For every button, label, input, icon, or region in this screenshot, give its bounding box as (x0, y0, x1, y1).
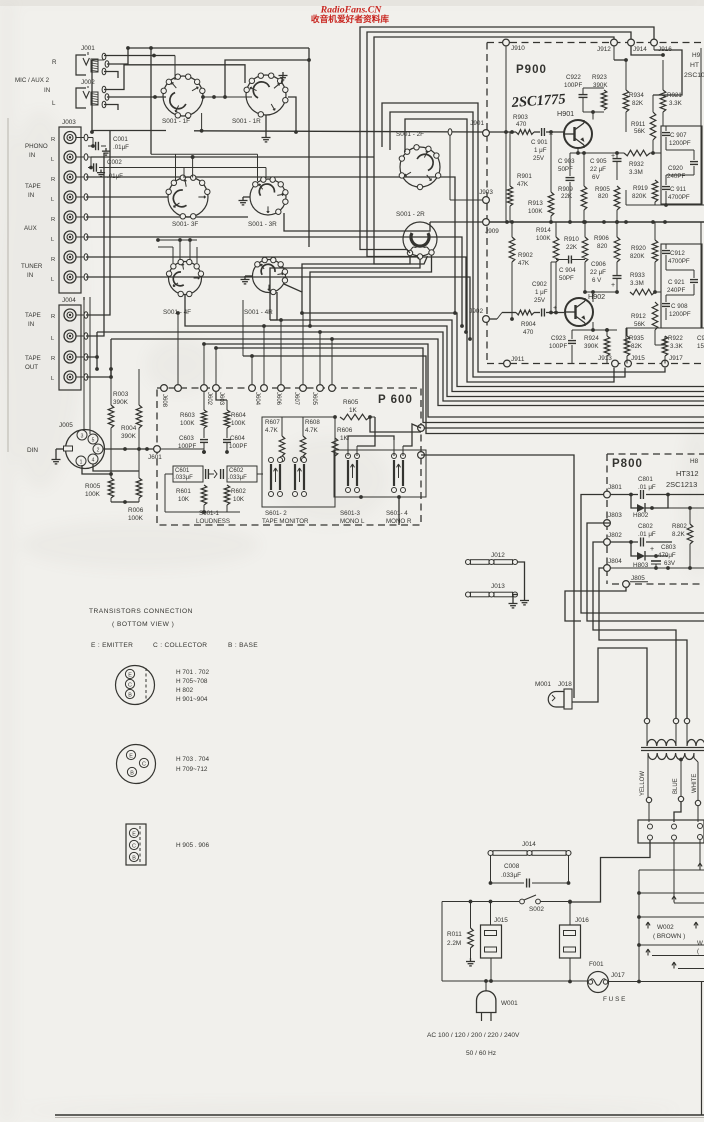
svg-text:DIN: DIN (27, 447, 38, 454)
resistor R603 100K (180, 392, 207, 438)
svg-text:R904: R904 (521, 321, 536, 328)
wire bundle risers P600 (176, 300, 334, 384)
wire J001 contacts (104, 46, 309, 80)
ground J005 (52, 449, 64, 464)
svg-text:4.7K: 4.7K (305, 427, 319, 434)
rotary switch S001-2R (396, 211, 437, 259)
svg-text:OUT: OUT (25, 364, 38, 371)
svg-text:R: R (51, 177, 55, 183)
svg-text:22 μF: 22 μF (590, 269, 606, 276)
transformer primary coils (647, 724, 704, 746)
svg-text:1200PF: 1200PF (669, 140, 691, 147)
wire TAPE IN L run (86, 196, 168, 198)
wire J804 loop (599, 568, 687, 721)
svg-text:R006: R006 (128, 507, 144, 514)
svg-text:C 905: C 905 (590, 158, 607, 165)
wire arrow y952 (646, 949, 704, 956)
wire PHONO R to J901 (92, 131, 483, 133)
wire J804 row (611, 566, 704, 570)
svg-text:R914: R914 (536, 227, 551, 234)
diode H803 (631, 542, 668, 569)
box around C912 C921 C908 (661, 244, 702, 328)
svg-text:J604: J604 (254, 392, 260, 406)
wire TAPE IN J004 L (86, 153, 104, 336)
resistor R921 3.3K (631, 46, 683, 126)
svg-text:F U S E: F U S E (603, 996, 625, 1003)
svg-text:4700PF: 4700PF (668, 194, 690, 201)
svg-text:C : COLLECTOR: C : COLLECTOR (153, 642, 207, 649)
svg-text:R920: R920 (631, 245, 646, 252)
svg-text:P 600: P 600 (378, 394, 413, 406)
svg-text:470: 470 (516, 121, 527, 128)
capacitor C906 22uF 6V (590, 261, 622, 294)
svg-text:820: 820 (598, 193, 609, 200)
svg-text:H9: H9 (692, 52, 701, 59)
capacitor C601 .033uF (165, 466, 214, 482)
svg-text:S001 - 4R: S001 - 4R (244, 309, 273, 316)
legend subtitle (91, 642, 258, 649)
wire bundle line y356 (243, 356, 704, 434)
jack J602 (201, 385, 212, 406)
jack J913 (598, 355, 618, 367)
fuse F001 (588, 961, 626, 1003)
wire S001-3R to bundle (284, 213, 430, 231)
jack J603 (213, 385, 224, 406)
svg-text:J005: J005 (59, 422, 73, 429)
resistor R005 100K (85, 474, 114, 502)
labels TUNER IN (21, 257, 55, 283)
svg-text:470μF: 470μF (658, 552, 676, 559)
resistor R605 1K (335, 399, 375, 420)
connector J013 (466, 583, 518, 608)
watermark RadioFans.CN (311, 5, 390, 25)
resistor R913 100K (528, 132, 554, 224)
wire bundle line y326 (185, 294, 704, 397)
capacitor C803 470uF 63V (650, 544, 676, 570)
svg-text:100K: 100K (128, 515, 144, 522)
svg-text:820K: 820K (630, 253, 645, 260)
svg-text:C601: C601 (175, 468, 190, 474)
rotary switch S001-4F (163, 259, 204, 316)
svg-text:H 901~904: H 901~904 (176, 696, 208, 703)
label W002 BROWN (646, 922, 704, 940)
jack P600 top 8 (317, 385, 324, 392)
wire secondary yellow (640, 753, 652, 822)
wire AUX L run (86, 237, 464, 328)
svg-text:B: B (128, 692, 132, 698)
plug W001 (477, 979, 519, 1021)
svg-text:TAPE: TAPE (25, 312, 41, 319)
svg-text:C 908: C 908 (671, 303, 688, 310)
jack J903 (479, 189, 493, 203)
svg-text:收音机爱好者资料库: 收音机爱好者资料库 (311, 13, 390, 24)
switch S601-4 MONO R (386, 454, 412, 526)
resistor R934 82K (614, 46, 644, 132)
jack J910 (503, 39, 526, 52)
svg-text:3: 3 (81, 434, 84, 440)
svg-text:J901: J901 (470, 120, 484, 127)
wire bundle line y344 (204, 344, 704, 417)
capacitor C008 .033uF (489, 856, 571, 888)
svg-text:47K: 47K (518, 260, 530, 267)
svg-text:TAPE: TAPE (25, 355, 41, 362)
svg-text:H 701 . 702: H 701 . 702 (176, 669, 209, 676)
wire TAPE OUT L (86, 339, 113, 379)
svg-text:22K: 22K (561, 193, 573, 200)
svg-text:3.3K: 3.3K (669, 100, 683, 107)
resistor R919 820K (632, 153, 658, 205)
svg-text:AUX: AUX (24, 225, 37, 232)
svg-text:S001 - 1F: S001 - 1F (162, 118, 190, 125)
svg-text:R901: R901 (517, 173, 532, 180)
svg-text:P900: P900 (516, 64, 547, 76)
jack J607 (278, 385, 299, 406)
ground right of S001-1R (279, 72, 288, 84)
wire S001-4R contacts (270, 284, 304, 320)
svg-text:100K: 100K (85, 491, 101, 498)
jack P600 top 9 (329, 385, 336, 392)
svg-text:IN: IN (27, 272, 33, 279)
wire PHONO L run (91, 155, 374, 159)
svg-text:H 703 . 704: H 703 . 704 (176, 756, 209, 763)
svg-text:C802: C802 (638, 523, 653, 530)
svg-text:R: R (52, 59, 57, 66)
connector J014 (488, 841, 571, 856)
svg-text:82K: 82K (631, 343, 643, 350)
label DIN (27, 447, 38, 454)
connector J015 (481, 902, 509, 982)
svg-text:2.2M: 2.2M (447, 940, 461, 947)
wire P600 to lamp (421, 455, 574, 698)
svg-text:C902: C902 (532, 281, 547, 288)
capacitor C907 1200PF (662, 126, 691, 150)
svg-text:S601- 4: S601- 4 (386, 510, 408, 517)
resistor R935 82K (624, 328, 644, 364)
jack J608 (161, 385, 168, 408)
svg-text:C923: C923 (551, 335, 566, 342)
svg-text:HT312: HT312 (676, 469, 699, 478)
wire bundle line y313 (302, 313, 704, 387)
wire arrow rail (637, 870, 641, 982)
wire H901 emitter (577, 148, 579, 153)
capacitor C604 100PF (223, 435, 247, 454)
svg-text:F001: F001 (589, 961, 604, 968)
svg-text:WHITE: WHITE (692, 774, 698, 793)
svg-text:C922: C922 (566, 74, 581, 81)
svg-text:3.3K: 3.3K (670, 343, 684, 350)
svg-text:820K: 820K (632, 193, 647, 200)
wire TAPE IN J004 R (86, 131, 110, 315)
handwritten 2SC1775 (510, 91, 566, 111)
svg-text:J913: J913 (598, 355, 612, 362)
transistor H901 (557, 109, 592, 148)
svg-text:S001 - 3R: S001 - 3R (248, 221, 277, 228)
jack J911 (504, 356, 525, 367)
svg-text:10K: 10K (178, 496, 190, 503)
svg-text:+: + (650, 546, 654, 553)
capacitor C905 22uF 6V (570, 151, 622, 224)
wire R005/R006 bottom (111, 500, 139, 504)
capacitor C001 .01uF (88, 136, 129, 155)
svg-text:1 μF: 1 μF (535, 289, 548, 296)
jack J604 (249, 385, 260, 406)
svg-text:J017: J017 (611, 972, 625, 979)
svg-text:R602: R602 (231, 488, 246, 495)
wire lamp to transformer (572, 648, 647, 718)
resistor R602 10K (224, 482, 246, 512)
label S601-1 LOUDNESS (196, 510, 230, 525)
wire TUNER R run (86, 257, 468, 334)
svg-text:J909: J909 (485, 228, 499, 235)
svg-text:S001 - 2F: S001 - 2F (396, 131, 424, 138)
ground below S001-1R (262, 115, 271, 142)
svg-text:R902: R902 (518, 252, 533, 259)
svg-text:J002: J002 (81, 79, 95, 86)
wire J910 down (505, 46, 507, 222)
svg-text:C 901: C 901 (531, 139, 548, 146)
wire J805 loop (565, 588, 626, 622)
svg-text:J601: J601 (148, 454, 162, 461)
lamp M001 J018 (535, 681, 572, 709)
wire group B line 3 (421, 427, 704, 429)
resistor R004 390K (121, 369, 142, 471)
svg-text:C603: C603 (179, 435, 194, 442)
rotary switch S001-3F (166, 175, 210, 228)
svg-text:R605: R605 (343, 399, 359, 406)
svg-text:C 903: C 903 (558, 158, 575, 165)
wires S601-3/4 bottoms (352, 495, 404, 525)
svg-text:C: C (132, 843, 136, 849)
svg-text:10K: 10K (233, 496, 245, 503)
svg-text:1 μF: 1 μF (534, 147, 547, 154)
svg-text:100PF: 100PF (564, 82, 582, 89)
resistor R903 470 (513, 114, 528, 128)
svg-text:J607: J607 (293, 392, 299, 406)
svg-text:TRANSISTORS CONNECTION: TRANSISTORS CONNECTION (89, 608, 193, 615)
svg-text:J018: J018 (558, 681, 572, 688)
resistor R905 820 (595, 186, 620, 222)
wire TUNER L run (86, 277, 472, 341)
wire line y870 (639, 863, 704, 871)
svg-text:R932: R932 (629, 161, 644, 168)
svg-text:R934: R934 (629, 92, 644, 99)
svg-text:H802: H802 (633, 512, 649, 519)
jack J902 (469, 308, 489, 322)
box around S601-3/4 (334, 450, 426, 497)
wire selector right down (699, 840, 701, 871)
svg-text:IN: IN (28, 321, 34, 328)
svg-text:22 μF: 22 μF (590, 166, 606, 173)
svg-text:82K: 82K (632, 100, 644, 107)
svg-text:H902: H902 (588, 292, 605, 301)
capacitor C903 50PF (558, 153, 575, 224)
resistor R608 4.7K (300, 392, 320, 462)
svg-text:TUNER: TUNER (21, 263, 43, 270)
svg-text:3.3M: 3.3M (629, 169, 643, 176)
svg-text:1K: 1K (340, 435, 349, 442)
svg-text:25V: 25V (533, 155, 545, 162)
svg-text:R: R (51, 137, 55, 143)
wire line y917 (639, 916, 704, 918)
jack J916 (651, 39, 673, 53)
svg-text:J903: J903 (479, 189, 493, 196)
svg-text:IN: IN (29, 152, 35, 159)
right edge fragments (697, 48, 704, 350)
svg-text:R: R (51, 257, 55, 263)
svg-text:C001: C001 (113, 136, 128, 143)
svg-text:J016: J016 (575, 917, 589, 924)
wire DIN pin2 to J601 (103, 447, 156, 451)
svg-text:.033μF: .033μF (501, 872, 521, 879)
wire top bundle 3 (374, 37, 614, 264)
legend transistor type 2 (117, 745, 210, 784)
svg-text:R011: R011 (447, 931, 462, 938)
svg-text:100K: 100K (536, 235, 551, 242)
jack J804 (604, 558, 623, 571)
svg-text:J803: J803 (608, 512, 622, 519)
svg-text:S001 - 1R: S001 - 1R (232, 118, 261, 125)
jack P600 right 2 (418, 452, 425, 459)
svg-text:AC 100 / 120 / 200 / 220 / 24: AC 100 / 120 / 200 / 220 / 240V (427, 1032, 520, 1039)
svg-text:B : BASE: B : BASE (228, 642, 258, 649)
wire DIN pins down (82, 464, 139, 476)
wire S001-1F/1R interconnect (151, 48, 309, 154)
svg-text:S001- 3F: S001- 3F (172, 221, 198, 228)
jack J606 (261, 385, 281, 406)
wire AC loop left (442, 902, 486, 982)
svg-text:R: R (51, 314, 55, 320)
module box P900 (487, 43, 704, 364)
capacitor C921 240PF (666, 270, 698, 295)
svg-text:C912: C912 (670, 250, 685, 257)
connector J002 (MIC/AUX2 L) (52, 79, 109, 108)
svg-text:C 911: C 911 (670, 186, 687, 193)
wire H901 collector up (592, 85, 594, 88)
svg-text:R603: R603 (180, 412, 195, 419)
wire H902 collector (585, 290, 617, 302)
svg-text:R913: R913 (528, 200, 543, 207)
svg-text:R906: R906 (594, 235, 609, 242)
wire top rail C922 (583, 88, 604, 120)
svg-text:6V: 6V (592, 174, 600, 181)
svg-text:J013: J013 (491, 583, 505, 590)
resistor R006 100K (128, 471, 144, 522)
jack J902 wire / R904 470 (490, 262, 565, 336)
wire secondary blue (673, 758, 684, 822)
svg-text:J917: J917 (669, 355, 683, 362)
page left fold (7, 118, 9, 452)
capacitor C908 1200PF (662, 295, 694, 320)
svg-text:J001: J001 (81, 45, 95, 52)
wires S001-2R outputs (270, 255, 432, 328)
resistor R902 47K (509, 222, 533, 321)
wires into S001-4F (156, 238, 197, 263)
svg-text:IN: IN (28, 192, 34, 199)
svg-text:C906: C906 (591, 261, 606, 268)
svg-text:R910: R910 (564, 236, 579, 243)
svg-text:470: 470 (523, 329, 534, 336)
wire box bottom rail (626, 190, 704, 207)
jack J802 (604, 532, 623, 545)
svg-text:25V: 25V (534, 297, 546, 304)
rotary switch S001-4R (244, 257, 288, 316)
svg-text:H 802: H 802 (176, 687, 193, 694)
jack J909 (483, 219, 509, 235)
svg-text:L: L (52, 100, 56, 107)
svg-text:J915: J915 (631, 355, 645, 362)
capacitor C801 .01uF (611, 476, 704, 499)
svg-text:P800: P800 (612, 458, 643, 470)
wire selector middle down (672, 840, 704, 903)
svg-text:B: B (132, 855, 136, 861)
jack J801 (604, 484, 623, 498)
resistor R932 3.3M (617, 150, 661, 176)
svg-text:390K: 390K (113, 399, 129, 406)
svg-text:4700PF: 4700PF (668, 258, 690, 265)
capacitor C901 1uF 25V (531, 132, 553, 162)
wire DIN pin5 up (89, 297, 91, 434)
svg-text:W: W (697, 940, 703, 947)
resistor R601 10K (176, 482, 207, 512)
wire AUX R run (86, 216, 248, 218)
resistor R911 56K (631, 95, 656, 155)
svg-text:H 709~712: H 709~712 (176, 766, 208, 773)
svg-text:J606: J606 (275, 392, 281, 406)
legend transistor type 1 (116, 666, 210, 705)
capacitor C002 .01uF (88, 157, 266, 180)
capacitor C904 50PF (556, 256, 585, 283)
box around S601-2 (262, 417, 335, 507)
svg-text:J910: J910 (511, 45, 525, 52)
svg-text:H 905 . 906: H 905 . 906 (176, 842, 209, 849)
box around C907 C920 C911 (661, 126, 702, 204)
svg-text:J911: J911 (511, 356, 525, 363)
svg-text:1: 1 (80, 460, 83, 466)
svg-text:R606: R606 (337, 427, 353, 434)
connector J005 DIN (59, 422, 105, 469)
svg-text:5: 5 (92, 438, 95, 444)
svg-text:R933: R933 (630, 272, 645, 279)
ground left of S001-3R (239, 197, 251, 205)
wire bundle line y339 (111, 339, 704, 406)
resistor R920 820K (630, 222, 658, 294)
resistor R003 390K (108, 369, 129, 474)
svg-text:( BOTTOM VIEW ): ( BOTTOM VIEW ) (112, 621, 174, 628)
svg-text:C: C (128, 682, 132, 688)
svg-text:8.2K: 8.2K (672, 531, 686, 538)
contacts J004 rows (75, 312, 88, 381)
svg-text:E: E (128, 672, 132, 678)
svg-text:J608: J608 (161, 394, 167, 408)
jack J915 (625, 355, 646, 367)
voltage selector block (638, 820, 704, 843)
labels TAPE OUT (25, 355, 55, 382)
wire arrow y903 (680, 902, 704, 904)
svg-text:C 921: C 921 (668, 279, 685, 286)
wire J802 loop (593, 542, 676, 721)
capacitor C920 240PF (666, 150, 698, 180)
svg-text:390K: 390K (121, 433, 137, 440)
capacitor C922 100PF (564, 74, 588, 112)
resistor R923 390K (592, 74, 608, 110)
svg-text:R607: R607 (265, 419, 280, 426)
connector strip J003 (59, 119, 81, 293)
svg-text:J912: J912 (597, 46, 611, 53)
wire lower box rail (626, 328, 704, 345)
svg-text:C803: C803 (661, 544, 676, 551)
module box P600 (157, 388, 421, 525)
svg-text:R004: R004 (121, 425, 137, 432)
